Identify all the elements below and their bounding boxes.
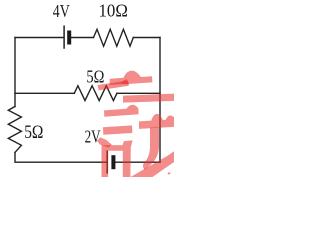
svg-text:5Ω: 5Ω [24,123,43,143]
svg-text:4V: 4V [53,1,70,21]
svg-text:2V: 2V [85,126,101,146]
svg-text:5Ω: 5Ω [86,66,104,86]
svg-text:10Ω: 10Ω [99,0,128,20]
